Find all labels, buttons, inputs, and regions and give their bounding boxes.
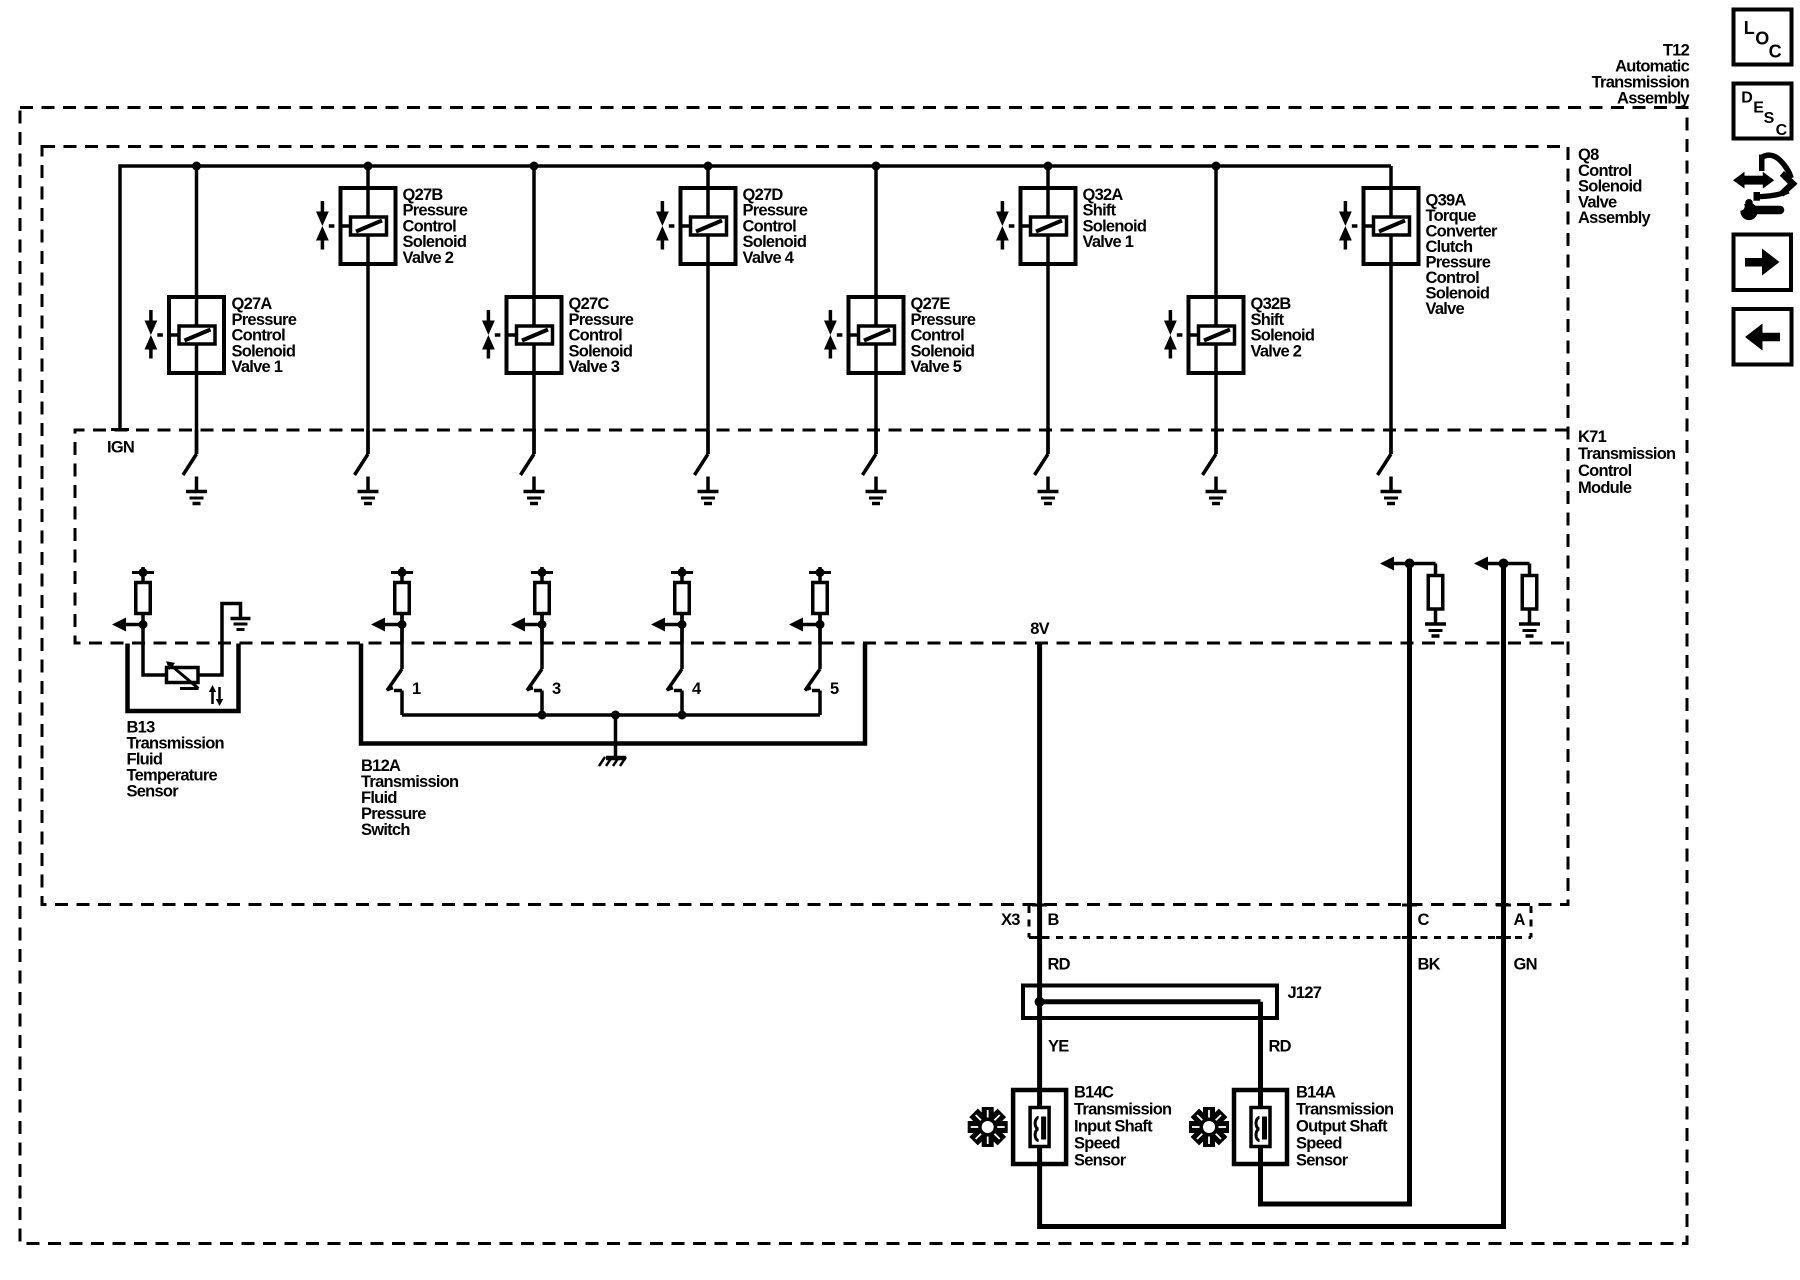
svg-text:Module: Module	[1578, 479, 1632, 497]
svg-text:Assembly: Assembly	[1578, 209, 1652, 227]
svg-text:Transmission: Transmission	[1578, 445, 1676, 463]
svg-text:GN: GN	[1514, 956, 1537, 974]
svg-text:X3: X3	[1001, 911, 1020, 929]
svg-text:Transmission: Transmission	[1296, 1101, 1394, 1119]
svg-text:3: 3	[552, 680, 561, 698]
svg-text:K71: K71	[1578, 428, 1607, 446]
svg-text:Valve 1: Valve 1	[232, 358, 283, 376]
svg-text:D: D	[1741, 89, 1753, 106]
svg-text:Speed: Speed	[1296, 1135, 1342, 1153]
svg-text:Sensor: Sensor	[127, 783, 180, 801]
svg-text:C: C	[1769, 42, 1782, 62]
svg-text:Input Shaft: Input Shaft	[1074, 1118, 1153, 1136]
svg-text:RD: RD	[1269, 1038, 1292, 1056]
svg-text:Transmission: Transmission	[1074, 1101, 1172, 1119]
svg-text:Sensor: Sensor	[1074, 1152, 1127, 1170]
svg-text:Output Shaft: Output Shaft	[1296, 1118, 1388, 1136]
svg-text:C: C	[1776, 122, 1788, 139]
svg-text:IGN: IGN	[107, 439, 134, 457]
svg-text:E: E	[1753, 100, 1764, 117]
svg-text:Valve 4: Valve 4	[743, 249, 795, 267]
svg-text:Valve 2: Valve 2	[403, 249, 454, 267]
svg-text:8V: 8V	[1030, 620, 1049, 638]
svg-text:Valve 2: Valve 2	[1251, 342, 1302, 360]
svg-text:J127: J127	[1288, 984, 1322, 1002]
svg-text:YE: YE	[1048, 1038, 1069, 1056]
svg-text:Assembly: Assembly	[1617, 90, 1691, 108]
svg-text:Sensor: Sensor	[1296, 1152, 1349, 1170]
svg-text:L: L	[1744, 18, 1755, 38]
svg-text:Valve 3: Valve 3	[569, 358, 620, 376]
svg-text:B14C: B14C	[1074, 1084, 1114, 1102]
svg-text:Valve 5: Valve 5	[911, 358, 962, 376]
svg-text:Speed: Speed	[1074, 1135, 1120, 1153]
svg-text:B14A: B14A	[1296, 1084, 1336, 1102]
svg-text:Switch: Switch	[361, 821, 410, 839]
svg-text:Valve: Valve	[1426, 300, 1465, 318]
svg-text:RD: RD	[1048, 956, 1071, 974]
svg-text:Control: Control	[1578, 462, 1632, 480]
svg-text:C: C	[1418, 911, 1430, 929]
svg-text:5: 5	[830, 680, 839, 698]
svg-text:B: B	[1048, 911, 1060, 929]
svg-text:A: A	[1514, 911, 1526, 929]
svg-text:1: 1	[412, 680, 421, 698]
svg-text:S: S	[1764, 110, 1775, 127]
svg-text:Valve 1: Valve 1	[1083, 233, 1134, 251]
svg-text:O: O	[1755, 28, 1769, 48]
svg-text:BK: BK	[1418, 956, 1441, 974]
